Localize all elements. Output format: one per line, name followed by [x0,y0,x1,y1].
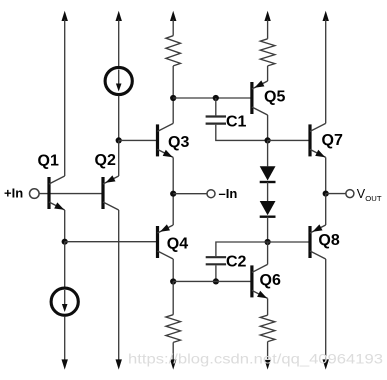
wire: Q3 emitter / Q4 emitter common (to -In node D) [172,157,174,225]
svg-text:Q8: Q8 [318,232,339,249]
wire: resistor to V- [267,342,269,360]
V- rail arrow (below Q6 resistor) [264,359,270,369]
diode D2 [260,201,276,217]
node F junction (C1 top tap) [213,95,219,101]
wire: node C to current source I2 [64,242,66,287]
wire: Q1 collector to V+ [64,20,66,177]
wire: node F down to C1 [215,98,217,115]
svg-text:Q3: Q3 [168,134,189,151]
svg-text:Q5: Q5 [264,89,285,106]
wire: Q7 emitter to output node [325,157,327,193]
transistor Q6 (NPN) [252,264,268,298]
wire: node E to Q6 base [173,280,252,282]
wire: I2 to V- [64,316,66,360]
wire: resistor to node B / Q3 collector [172,66,174,124]
node H junction (diode bottom / Q8 base) [265,239,271,245]
node G junction (diode top / Q7 base) [265,137,271,143]
wire: Q4 collector to node E [172,259,174,282]
svg-text:OUT: OUT [365,194,382,203]
wire: V+ to resistor [172,20,174,36]
svg-text:Q6: Q6 [260,272,281,289]
transistor Q1 (NPN) [49,176,65,210]
wire: node C to Q4 base [65,241,158,243]
resistor (emitter load of Q6) [260,315,275,341]
wire: output node to Q8 emitter [325,194,327,225]
wire: I1 to node A [118,96,120,141]
svg-text:Q1: Q1 [38,152,59,169]
wire: node G to diode D1 [267,140,269,166]
wire: Q5 collector to node G [267,115,269,140]
capacitor C2 [206,257,226,264]
-In terminal [207,190,215,198]
V- rail arrow (below Q4 resistor) [170,359,176,369]
wire: node E to resistor [172,282,174,315]
transistor Q5 (PNP) [252,80,268,115]
Vout terminal [346,190,354,198]
transistor Q8 (PNP) [310,224,326,259]
resistor (collector load of Q3) [166,36,181,66]
current source I1 [105,67,132,94]
wire: node H to C2 top [216,242,268,256]
svg-text:https://blog.csdn.net/qq_40964: https://blog.csdn.net/qq_40964193 [128,350,383,366]
wire: Q2 collector to V- [118,210,120,360]
wire: output node to Vout terminal [326,193,346,195]
node A junction (Q2 emitter / Q3 base) [116,137,122,143]
wire: Q6 emitter to resistor [267,298,269,315]
wire: C1 bottom to node G line [216,125,268,141]
wire: resistor to V- [172,342,174,360]
transistor Q3 (NPN) [158,123,174,157]
svg-text:C1: C1 [226,113,247,130]
wire: Q8 collector to V- [325,259,327,360]
wire: resistor to Q5 emitter [267,66,269,81]
node D junction (-In) [170,191,176,197]
wire: V+ to resistor [267,20,269,39]
V+ rail arrow (above R_C5) [264,11,270,21]
node C junction (Q1 emitter / Q4 base) [62,239,68,245]
wire: node A to Q2 emitter [118,140,120,176]
wire: +In to Q1/Q2 bases [39,193,103,195]
wire: Q7 collector to V+ [325,20,327,124]
V+ rail arrow (above R_C3) [170,11,176,21]
wire: node H to Q6 collector [267,242,269,264]
node B junction (Q3 collector / Q5 base line) [170,95,176,101]
V- rail arrow (below I2) [62,359,68,369]
V- rail arrow (below Q2) [116,359,122,369]
svg-text:+In: +In [4,185,23,200]
wire: node B to Q5 base (with C1 tap) [173,97,252,99]
wire: node D to -In terminal [173,193,207,195]
+In terminal [30,189,40,199]
V+ rail arrow (above current source I1) [116,11,122,21]
svg-text:C2: C2 [226,254,247,271]
svg-text:Q7: Q7 [322,132,343,149]
V+ rail arrow (left, above Q1) [62,11,68,21]
transistor Q2 (PNP) [103,175,119,210]
wire: V+ to current source I1 [118,20,120,67]
transistor Q4 (PNP) [158,224,174,259]
svg-text:–In: –In [219,186,238,201]
V- rail arrow (below Q8) [323,359,329,369]
resistor (emitter load of Q5) [260,39,275,66]
diode D1 [260,166,276,182]
wire: D1 to D2 [267,182,269,201]
wire: node A to Q3 base [119,139,158,141]
svg-text:Q2: Q2 [95,152,116,169]
node I junction (C2 bottom tap) [213,278,219,284]
wire: node G to Q7 base [268,139,310,141]
svg-text:Q4: Q4 [167,235,188,252]
wire: node H to Q8 base [268,241,310,243]
capacitor C1 [206,117,226,124]
wire: Q1 emitter down to node C [64,210,66,242]
node E junction (Q4 collector / Q6 base line) [170,278,176,284]
V+ rail arrow (above Q7) [323,11,329,21]
node J junction (output) [323,191,329,197]
wire: C2 bottom to node I [215,265,217,281]
wire: D2 to node H [267,217,269,242]
current source I2 [51,288,78,315]
resistor (collector load of Q4) [166,315,181,343]
transistor Q7 (NPN) [310,123,326,157]
